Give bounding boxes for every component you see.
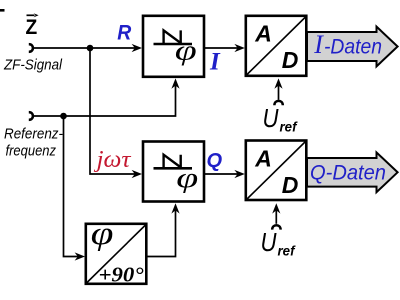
svg-text:Q-Daten: Q-Daten — [310, 162, 386, 185]
svg-text:jωτ: jωτ — [93, 146, 131, 173]
ADC1 diagonal — [247, 17, 306, 75]
vector Z label — [26, 13, 39, 39]
junction dot Referenz split — [60, 113, 67, 120]
phase shifter diagonal — [87, 225, 146, 283]
Uref input to ADC1 — [263, 78, 298, 134]
svg-text:φ: φ — [176, 162, 198, 193]
svg-text:ref: ref — [278, 243, 296, 259]
wire ZF input to mixer M1 — [34, 44, 143, 52]
svg-text:I: I — [313, 30, 324, 59]
mixer M1 box — [143, 16, 204, 77]
mixer M2 box — [143, 142, 204, 202]
wire M1 output to ADC1 — [205, 44, 245, 52]
svg-text:Referenz-: Referenz- — [4, 126, 63, 143]
phase shifter +90 box — [86, 224, 147, 284]
svg-text:A: A — [254, 145, 272, 171]
mixer M1 sawtooth symbol — [154, 30, 193, 44]
Referenz-frequenz label — [4, 126, 63, 160]
svg-text:frequenz: frequenz — [6, 143, 57, 160]
wire ZF junction to mixer M2 — [90, 48, 142, 178]
svg-text:φ: φ — [91, 216, 114, 252]
ADC2 diagonal — [247, 142, 306, 200]
A/D converter ADC1 box — [246, 16, 306, 76]
wire Referenz junction to phase shifter — [64, 116, 86, 261]
svg-text:R: R — [117, 20, 131, 44]
svg-text:+90°: +90° — [99, 263, 145, 287]
wire Referenz input to mixer M1 LO port — [34, 78, 180, 116]
svg-text:ref: ref — [280, 119, 298, 135]
svg-text:φ: φ — [175, 35, 197, 66]
wire M2 output to ADC2 — [205, 170, 245, 178]
mixer M1 phi label — [175, 35, 197, 66]
svg-text:Z: Z — [26, 15, 38, 39]
phase shifter phi label — [91, 216, 114, 252]
A/D converter ADC2 box — [246, 141, 306, 201]
svg-text:D: D — [282, 172, 299, 198]
Uref input to ADC2 — [261, 203, 296, 258]
svg-text:Q: Q — [207, 150, 223, 172]
junction dot ZF split — [87, 45, 94, 52]
mixer M2 sawtooth symbol — [154, 155, 193, 169]
svg-text:U: U — [263, 104, 279, 133]
svg-text:A: A — [254, 21, 272, 47]
input connector Referenz — [29, 112, 33, 120]
svg-text:ZF-Signal: ZF-Signal — [3, 56, 62, 73]
wire phase shifter to mixer M2 LO port — [147, 203, 180, 256]
input connector ZF — [29, 44, 33, 52]
output arrow I-Daten — [307, 27, 398, 67]
svg-text:I: I — [209, 48, 221, 75]
svg-text:D: D — [282, 47, 299, 73]
svg-text:U: U — [261, 228, 277, 257]
mixer M2 phi label — [176, 162, 198, 193]
output arrow Q-Daten — [307, 152, 398, 192]
svg-text:-Daten: -Daten — [324, 35, 382, 58]
edge mark (cropped frame fragment) — [0, 9, 5, 12]
